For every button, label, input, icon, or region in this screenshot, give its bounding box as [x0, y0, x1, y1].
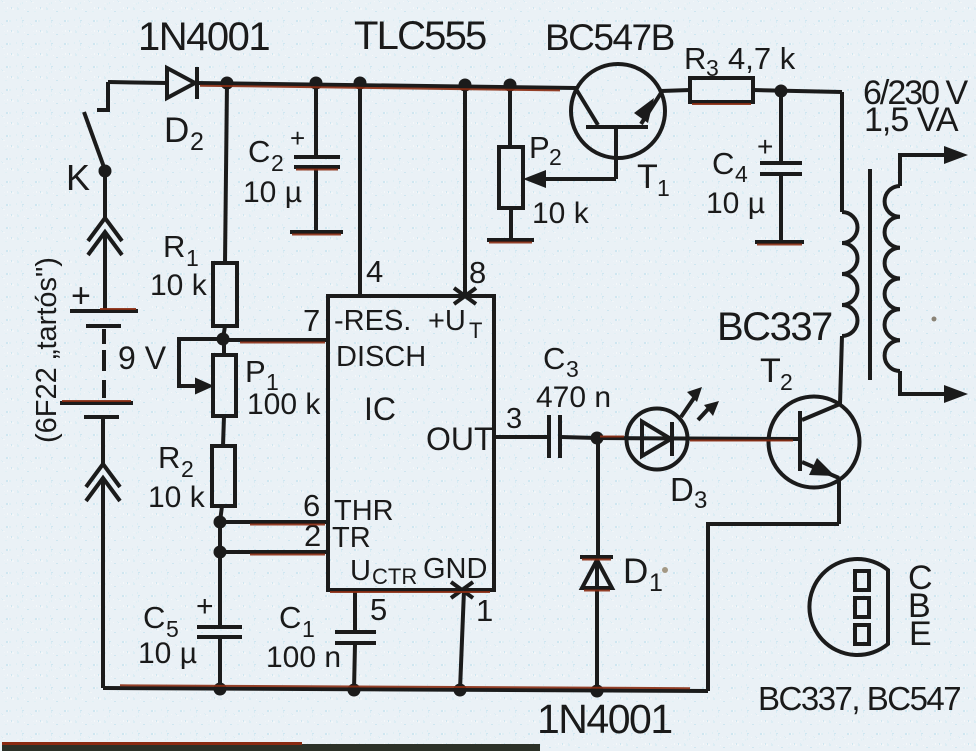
potentiometer P1 wiper loop [179, 339, 221, 395]
svg-text:1N4001: 1N4001 [138, 15, 269, 59]
svg-text:2: 2 [271, 150, 284, 176]
svg-text:2: 2 [549, 144, 562, 170]
svg-text:1: 1 [476, 593, 493, 628]
svg-text:1N4001: 1N4001 [537, 696, 672, 742]
wire top rail left [108, 82, 576, 88]
wire T2 emitter down [837, 478, 841, 524]
wire pin1 [460, 590, 464, 690]
switch K [66, 82, 110, 198]
wire emitter return [708, 524, 839, 691]
wire C3-node [561, 437, 597, 438]
wire pin3 OUT [494, 435, 548, 439]
wire THR-TR [218, 522, 222, 552]
battery 9V cell 1 [70, 277, 138, 326]
svg-text:10 µ: 10 µ [243, 176, 302, 209]
svg-text:U: U [350, 555, 371, 587]
svg-text:4: 4 [735, 161, 748, 187]
capacitor C3 [536, 341, 611, 458]
bottom rail [103, 688, 708, 691]
LED D3 [627, 409, 708, 515]
svg-text:DISCH: DISCH [336, 341, 426, 373]
node bottom C5 [214, 683, 227, 696]
node pin4 top [354, 77, 367, 90]
transformer core [868, 169, 872, 380]
battery chevrons top [88, 218, 122, 255]
svg-text:R: R [684, 41, 706, 76]
capacitor C4 [706, 91, 804, 242]
svg-text:470 n: 470 n [536, 381, 611, 414]
svg-text:1: 1 [186, 245, 199, 271]
battery chevrons bottom [86, 464, 120, 501]
transistor T1 BC547B [571, 64, 670, 201]
svg-text:BC547B: BC547B [545, 17, 674, 58]
wire fringes (scan artifact) [62, 86, 802, 689]
svg-text:(6F22 „tartós"): (6F22 „tartós") [31, 257, 63, 443]
wire battery bottom [101, 419, 105, 465]
svg-text:+: + [290, 123, 305, 153]
resistor R2 [148, 440, 235, 514]
svg-text:T: T [469, 318, 482, 343]
svg-text:1: 1 [302, 616, 315, 642]
svg-text:TLC555: TLC555 [354, 14, 486, 58]
potentiometer P1 [213, 339, 321, 421]
svg-text:1: 1 [657, 175, 670, 201]
svg-text:10 k: 10 k [150, 269, 208, 302]
IC box TLC555 [328, 296, 494, 590]
resistor R1 [150, 229, 237, 326]
svg-text:4: 4 [366, 254, 383, 289]
wire pin2 TR [220, 550, 330, 554]
svg-text:E: E [909, 615, 932, 653]
node THR [214, 516, 227, 529]
svg-text:R: R [163, 229, 185, 264]
LED light arrows [681, 387, 719, 420]
svg-text:OUT: OUT [426, 421, 494, 457]
svg-text:2: 2 [190, 128, 204, 156]
capacitor C2 [243, 83, 343, 232]
svg-text:T: T [760, 352, 781, 390]
wire C1 bottom [354, 644, 355, 690]
svg-text:D: D [164, 111, 189, 150]
svg-text:D: D [670, 471, 694, 508]
svg-text:3: 3 [694, 487, 707, 514]
svg-text:10 k: 10 k [532, 197, 590, 230]
battery 9V cell 2 [60, 403, 133, 417]
svg-text:2: 2 [181, 456, 194, 482]
node pin8 top [459, 79, 472, 92]
wire P1-R2 [223, 416, 224, 446]
secondary top lead arrow [900, 146, 968, 186]
transformer secondary coil [885, 186, 900, 371]
svg-text:C: C [279, 600, 301, 635]
svg-text:1,5 VA: 1,5 VA [864, 101, 959, 139]
node top rail R1 [221, 77, 234, 90]
transistor T2 BC337 [760, 352, 860, 488]
svg-text:2: 2 [780, 369, 793, 395]
wire battery top [103, 171, 107, 219]
svg-text:IC: IC [364, 391, 396, 427]
wire node-LED-T2 base [597, 438, 798, 439]
wire R3-corner [753, 90, 842, 92]
svg-text:5: 5 [370, 592, 387, 627]
svg-text:10 k: 10 k [148, 481, 206, 514]
svg-text:10 µ: 10 µ [138, 637, 197, 670]
capacitor C5 [138, 590, 242, 670]
TO-92 package outline [809, 559, 932, 655]
node switch-battery [99, 165, 112, 178]
svg-text:C: C [543, 341, 565, 376]
X mark pin1 GND [451, 582, 473, 598]
wire pin4 [358, 83, 362, 296]
X mark pin8 [454, 288, 476, 304]
diode D1 [580, 552, 668, 597]
svg-text:C: C [712, 146, 734, 181]
svg-text:100 k: 100 k [247, 388, 321, 421]
wire pin5 [353, 590, 357, 631]
svg-text:+U: +U [428, 305, 466, 337]
wire pin6 THR [220, 520, 330, 524]
svg-text:BC337, BC547: BC337, BC547 [758, 680, 960, 717]
svg-text:10 µ: 10 µ [706, 187, 765, 220]
svg-text:9 V: 9 V [118, 340, 167, 376]
svg-text:T: T [637, 158, 658, 196]
transformer primary coil [842, 212, 857, 336]
node C3 out [591, 432, 604, 445]
svg-text:P: P [529, 130, 550, 165]
node C2 top [310, 77, 323, 90]
node bottom C1 [348, 684, 361, 697]
transformer primary wire down [840, 92, 844, 212]
node C4 [775, 85, 788, 98]
wire R1 bottom [223, 326, 225, 339]
svg-text:4,7 k: 4,7 k [728, 41, 796, 76]
svg-text:C: C [143, 600, 165, 635]
svg-text:+: + [196, 590, 214, 623]
resistor R3 [684, 41, 796, 102]
wire TR-C5 [218, 552, 222, 626]
wire D1 bottom [595, 588, 599, 690]
P2 wiper arrow from T1 base [523, 129, 616, 188]
svg-text:CTR: CTR [372, 564, 417, 589]
battery dashed middle [102, 329, 106, 398]
svg-text:C: C [248, 134, 270, 169]
node bottom D1 [591, 685, 604, 698]
svg-text:BC337: BC337 [717, 305, 832, 349]
node TR [214, 546, 227, 559]
svg-text:P: P [245, 354, 266, 389]
node P2 top [504, 79, 517, 92]
secondary bottom lead arrow [900, 371, 968, 403]
wire T1-R3 [661, 90, 690, 91]
svg-text:+: + [757, 131, 773, 162]
svg-text:-RES.: -RES. [334, 305, 411, 337]
node R1-P1 [217, 333, 230, 346]
wire primary-T2 collector [840, 336, 842, 404]
svg-text:R: R [158, 440, 180, 475]
svg-text:3: 3 [706, 55, 719, 81]
svg-text:8: 8 [469, 255, 486, 290]
bottom scan strip [2, 742, 540, 751]
capacitor C1 [266, 600, 376, 674]
wire R1 top [225, 83, 227, 263]
wire pin8 [463, 85, 467, 296]
svg-text:3: 3 [506, 403, 522, 435]
node bottom pin1 [454, 684, 467, 697]
wire node-D1 [596, 438, 600, 556]
svg-text:D: D [623, 552, 648, 591]
svg-text:100 n: 100 n [266, 641, 341, 674]
svg-text:7: 7 [303, 303, 320, 338]
label 6/230V [932, 317, 937, 322]
diode D2 [164, 67, 204, 156]
wire pin7 [223, 338, 330, 342]
svg-text:TR: TR [332, 522, 371, 554]
svg-text:1: 1 [649, 569, 663, 597]
wire C5 bottom [218, 638, 222, 689]
wire R2 bottom [220, 506, 222, 522]
svg-text:GND: GND [423, 553, 487, 585]
svg-text:3: 3 [566, 356, 579, 382]
svg-text:2: 2 [304, 518, 321, 553]
potentiometer P2 [487, 85, 590, 240]
svg-text:K: K [66, 157, 90, 198]
